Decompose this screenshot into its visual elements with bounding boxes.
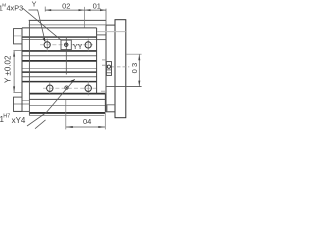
svg-text:H7: H7	[3, 113, 10, 119]
svg-text:Y: Y	[32, 0, 37, 9]
svg-text:Y ±0.02: Y ±0.02	[4, 55, 13, 83]
svg-text:04: 04	[83, 117, 91, 126]
svg-text:YY: YY	[73, 42, 83, 51]
svg-text:02: 02	[62, 2, 70, 11]
svg-text:01: 01	[93, 2, 101, 11]
svg-text:03: 03	[130, 61, 139, 74]
svg-text:4xP3: 4xP3	[7, 3, 24, 12]
svg-text:xY4: xY4	[12, 116, 26, 125]
